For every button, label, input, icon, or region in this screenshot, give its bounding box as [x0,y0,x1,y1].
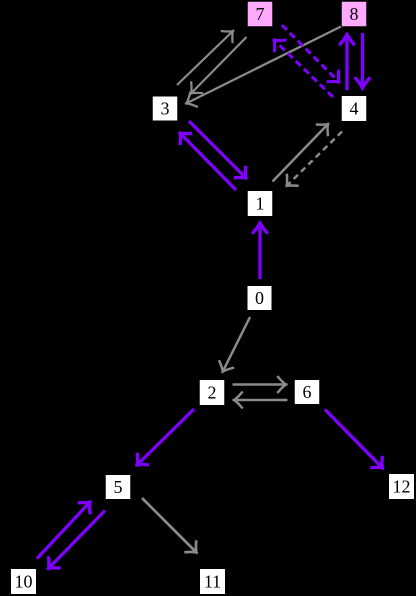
edge 1-to-4 gray [273,123,330,182]
edge 4-to-8 purple [339,33,355,90]
node 7 [248,2,273,27]
edge 1-to-3 purple [179,132,236,190]
svg-text:8: 8 [350,4,359,24]
svg-text:7: 7 [256,4,265,24]
edge 5-to-10 purple [48,511,106,570]
svg-text:4: 4 [350,99,359,119]
node 0 [248,286,272,310]
edge 4-to-7 purple dashed [273,39,333,97]
edge 3-to-1 purple [189,121,247,179]
svg-text:5: 5 [114,477,123,497]
svg-text:3: 3 [161,99,170,119]
node 3 [153,97,178,121]
node 1 [248,191,273,216]
edge 8-to-4 purple [355,33,371,90]
edge 0-to-1 purple [252,222,268,280]
edge 0-to-2 gray [219,317,250,373]
svg-text:1: 1 [256,194,265,214]
edge 2-to-5 purple [136,409,194,466]
svg-text:10: 10 [15,572,33,592]
node 6 [295,380,320,404]
node 2 [200,380,225,405]
node 4 [342,96,367,121]
edge 7-to-4 purple dashed [282,25,340,83]
node 8 [342,2,367,27]
edge 6-to-12 purple [325,410,384,470]
svg-text:12: 12 [393,477,411,497]
svg-text:0: 0 [255,288,264,308]
node 10 [11,569,36,594]
svg-text:2: 2 [208,383,217,403]
edge 4-to-1 gray dashed [286,132,343,188]
edge 8-to-3 gray [185,27,341,108]
svg-text:6: 6 [303,382,312,402]
edge 2-to-6 gray [233,376,288,393]
edge 5-to-11 gray [142,498,198,554]
edge 3-to-7 gray [177,30,234,85]
edge 6-to-2 gray [233,392,288,409]
node 12 [389,474,414,499]
svg-text:11: 11 [204,572,221,592]
edge 7-to-3 gray [190,37,247,95]
edge 10-to-5 purple [37,501,91,559]
node 5 [106,475,131,499]
node 11 [200,569,225,594]
